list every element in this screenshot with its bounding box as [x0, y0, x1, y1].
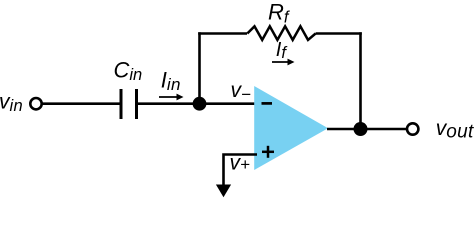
terminal: input open circle	[30, 98, 41, 109]
node: output junction dot	[354, 122, 368, 136]
svg-text:If: If	[276, 39, 289, 62]
ground arrowhead	[216, 185, 231, 198]
wire: capacitor to op-amp inverting input (through node A)	[138, 102, 257, 105]
svg-text:vout: vout	[436, 117, 474, 143]
node A junction dot	[193, 97, 207, 111]
current arrow Iin	[159, 94, 184, 101]
wire: op-amp output to terminal	[327, 128, 407, 131]
wire: feedback branch vertical up from node A	[198, 32, 201, 104]
wire: input terminal to capacitor	[42, 102, 120, 105]
wire: top feedback left segment	[198, 32, 247, 35]
capacitor Cin	[121, 89, 137, 119]
wire: non-inverting input to ground	[224, 155, 258, 187]
svg-text:Rf: Rf	[268, 0, 291, 27]
wire: top feedback right segment	[316, 32, 362, 35]
resistor Rf	[247, 26, 315, 40]
terminal: output open circle	[407, 123, 418, 134]
current arrow If	[272, 59, 295, 66]
svg-text:v+: v+	[230, 152, 251, 175]
svg-text:Iin: Iin	[161, 68, 181, 95]
svg-text:Cin: Cin	[114, 58, 143, 85]
op-amp inverting input marker (minus)	[262, 102, 273, 105]
wire: right feedback vertical down to output node	[359, 32, 362, 129]
op-amp non-inverting input marker (plus)	[262, 146, 274, 158]
svg-text:vin: vin	[0, 90, 23, 115]
svg-text:v−: v−	[231, 79, 252, 104]
op-amp U1 triangle	[254, 86, 328, 170]
